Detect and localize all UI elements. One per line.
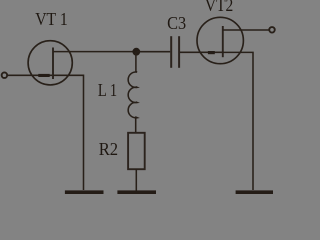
ground right <box>236 190 273 194</box>
svg-text:L 1: L 1 <box>98 80 117 100</box>
wire C3 to VT2 gate <box>180 51 223 53</box>
wire VT2 drain to output <box>223 29 269 31</box>
svg-text:VT2: VT2 <box>205 0 233 15</box>
wire VT1 drain to node A <box>53 51 136 53</box>
inductor L1 <box>128 72 137 118</box>
ground middle <box>117 190 156 194</box>
wire VT2 source to ground <box>223 52 253 190</box>
wire R2 to ground <box>135 169 137 190</box>
node A junction dot <box>132 48 140 56</box>
output terminal <box>269 27 275 33</box>
wire input to VT1 gate <box>8 74 52 76</box>
wire VT1 source to ground <box>53 75 84 190</box>
wire node A to L1 <box>135 52 137 72</box>
resistor R2 <box>128 133 145 169</box>
transistor VT1 <box>28 41 72 85</box>
capacitor C3 <box>171 36 179 68</box>
ground left <box>65 190 104 194</box>
svg-text:C3: C3 <box>167 13 186 33</box>
svg-text:R2: R2 <box>99 139 118 159</box>
input terminal <box>2 72 8 78</box>
wire L1 to R2 <box>135 117 137 133</box>
wire node A to C3 <box>136 51 170 53</box>
transistor VT2 <box>197 17 243 63</box>
svg-text:VT 1: VT 1 <box>35 9 67 29</box>
